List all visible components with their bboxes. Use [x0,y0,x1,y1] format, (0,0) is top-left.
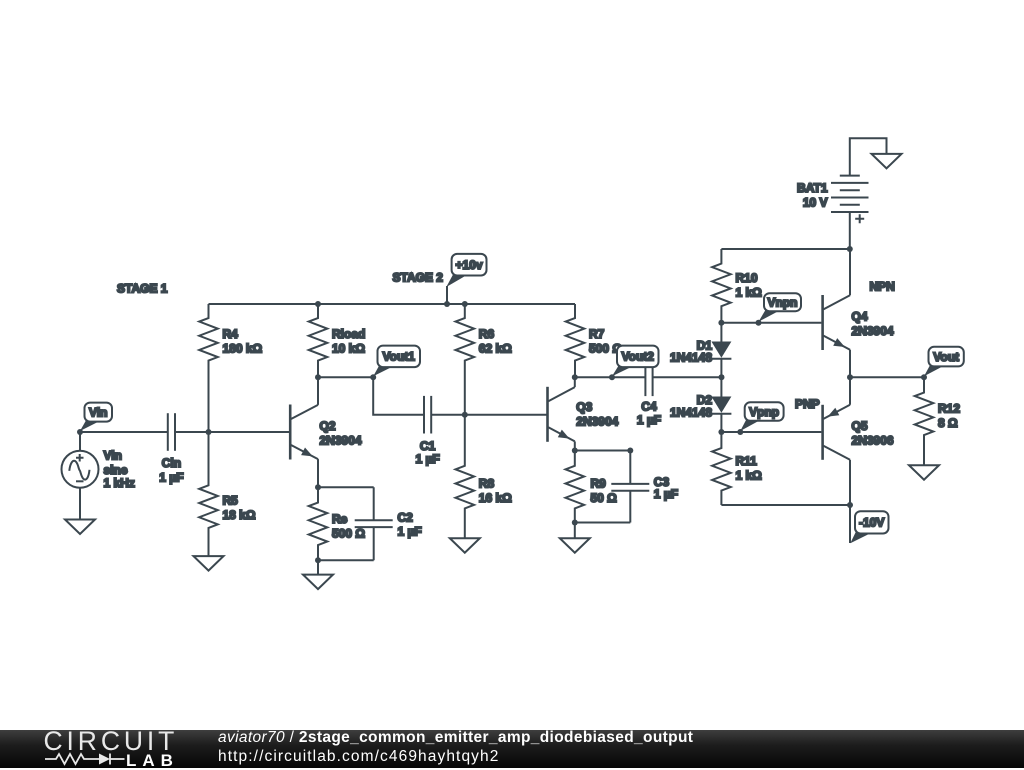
resistor R12 [915,377,934,465]
footer url line [218,748,499,767]
svg-text:Vin: Vin [89,405,107,419]
transistor Q2 2N3904 NPN [290,377,318,487]
svg-text:+10v: +10v [456,258,483,272]
svg-text:R9: R9 [591,477,607,491]
label C3 [654,475,678,501]
node -10V junction [847,502,853,508]
svg-text:R5: R5 [223,494,239,508]
svg-text:C1: C1 [420,439,436,453]
svg-text:180 kΩ: 180 kΩ [223,342,263,356]
capacitor C3 branch wires [575,451,631,523]
svg-text:500 Ω: 500 Ω [332,527,365,541]
capacitor Cin [168,413,175,451]
resistor R5 [199,432,218,556]
footer bar [0,730,1024,768]
svg-text:NPN: NPN [870,280,895,294]
svg-text:Q3: Q3 [576,400,592,414]
svg-text:-10V: -10V [859,516,884,530]
svg-text:BAT1: BAT1 [797,181,828,195]
diode D2 1N4148 [711,377,731,432]
svg-text:STAGE 1: STAGE 1 [117,282,168,296]
wire Vout1 down to C1 [373,377,424,414]
resistor R11 [712,432,731,505]
flag +10v [446,254,486,304]
label R7 [589,327,622,356]
resistor Rload [309,304,328,377]
capacitor C4 [645,359,652,397]
node Rload bottom [315,374,321,380]
svg-text:2N3904: 2N3904 [576,415,618,429]
ground below R5 [194,556,224,571]
svg-text:PNP: PNP [795,397,820,411]
resistor R8 [456,415,475,539]
label R4 [223,327,263,356]
svg-text:50 Ω: 50 Ω [591,491,618,505]
wire R9 bottom to ground [574,523,576,539]
svg-text:Vpnp: Vpnp [749,405,779,419]
label R10 [736,271,763,300]
wire battery to R10 [721,248,849,250]
svg-text:2N3904: 2N3904 [320,434,362,448]
ground below Vin source [65,520,95,535]
CircuitLab logo CIRCUIT word [44,728,179,755]
svg-text:Q4: Q4 [852,310,868,324]
wire Q5 base [721,431,821,433]
wire output rail stage2 [575,376,646,378]
label R8 [479,477,512,506]
svg-text:Vnpn: Vnpn [768,296,798,310]
wire C1 to R6/R8 node [431,414,465,416]
node Q4/Q5 output junction [847,374,853,380]
wire node to Q3 base [465,414,547,416]
flag Vin [80,403,112,431]
svg-text:1 µF: 1 µF [159,470,183,484]
node Vout2 [609,374,615,380]
svg-text:1 µF: 1 µF [654,487,678,501]
label R6 [479,327,512,356]
label Re [332,512,365,541]
label Rload [332,327,365,356]
node R7/Q3 collector [572,374,578,380]
node Q3 emitter junction [572,448,578,454]
svg-text:2N3904: 2N3904 [852,324,894,338]
svg-text:18 kΩ: 18 kΩ [223,508,256,522]
node D2/R11 junction [718,429,724,435]
svg-text:R10: R10 [736,271,758,285]
svg-text:8 Ω: 8 Ω [938,416,958,430]
label NPN [870,280,895,294]
node Vnpn [756,320,762,326]
label C2 [398,510,422,538]
svg-text:2N3906: 2N3906 [852,434,894,448]
label Q5 [852,419,894,448]
svg-text:Q2: Q2 [320,419,336,433]
label R9 [591,477,618,506]
label C4 [637,400,661,427]
voltage source V_in sine [62,432,99,520]
footer title line [218,729,693,748]
svg-text:STAGE 2: STAGE 2 [393,271,444,285]
node diode midpoint [719,374,725,380]
CircuitLab logo wire-diode glyph [45,752,135,766]
svg-text:Rload: Rload [332,327,365,341]
label Q4 [852,310,894,339]
svg-text:16 kΩ: 16 kΩ [479,491,512,505]
node Re bottom junction [315,557,321,563]
capacitor C2 [355,520,393,527]
svg-text:1 µF: 1 µF [415,452,439,466]
wire stub to -10V flag [849,505,851,543]
node C3 top corner [627,448,633,454]
svg-text:10 V: 10 V [803,196,828,210]
svg-text:Cin: Cin [162,456,181,470]
wire Re bottom to ground [317,560,319,574]
svg-text:R7: R7 [589,327,605,341]
resistor R10 [712,249,731,323]
wire Vin to Cin [80,431,168,433]
ground below R8 [450,538,480,553]
node battery positive junction [847,246,853,252]
node R6 top [462,301,468,307]
CircuitLab logo LAB word [126,752,179,769]
capacitor C2 branch wires [318,487,374,560]
svg-text:1N4148: 1N4148 [670,351,712,365]
resistor Re [309,487,328,560]
svg-text:R8: R8 [479,477,495,491]
wire node to Q2 base [209,431,290,433]
wire Q2 emitter to C2 branch [318,486,374,488]
ground below R9 [560,538,590,553]
svg-text:C4: C4 [641,400,657,414]
svg-text:62 kΩ: 62 kΩ [479,342,512,356]
wire Q4 base [721,322,821,324]
svg-text:Vout: Vout [933,350,959,364]
wire top supply rail [209,303,576,305]
svg-text:Vout1: Vout1 [383,350,416,364]
svg-text:1 kHz: 1 kHz [104,476,135,490]
node +10v junction [444,301,450,307]
label Cin [159,456,183,484]
ground at battery top [872,154,902,169]
label Q2 [320,419,362,448]
resistor R7 [566,304,585,377]
svg-text:1N4148: 1N4148 [670,406,712,420]
label STAGE 2 [393,271,444,285]
svg-text:Vout2: Vout2 [622,350,655,364]
label D1 [670,339,712,365]
wire Q3 emitter to C3 branch [575,450,631,452]
node Vout1 [370,374,376,380]
svg-text:C2: C2 [398,510,414,524]
label STAGE 1 [117,282,168,296]
ground below Re [303,575,333,590]
svg-text:1 kΩ: 1 kΩ [736,469,763,483]
svg-text:R12: R12 [938,402,960,416]
node R9 bottom junction [572,520,578,526]
label C1 [415,439,439,466]
flag Vout [924,347,964,377]
wire C4 to diode node [653,376,722,378]
svg-text:Q5: Q5 [852,419,868,433]
label Vin source [104,448,135,490]
node Cin/R5/base junction [206,429,212,435]
label BAT1 [797,181,828,210]
transistor Q5 2N3906 PNP [823,377,850,505]
label R5 [223,494,256,523]
node Vpnp [737,429,743,435]
transistor Q4 2N3904 NPN [823,249,850,377]
capacitor C3 [611,484,649,491]
node Rload top [315,301,321,307]
flag Vout1 [373,346,420,377]
wire output to Vout [850,376,924,378]
label D2 [670,393,712,420]
ground below R12 [909,465,939,480]
node Vout [921,374,927,380]
wire Rload bottom to Vout1 node [318,376,373,378]
svg-text:1 µF: 1 µF [637,413,661,427]
node Q2 emitter junction [315,484,321,490]
label Q3 [576,400,618,429]
label R12 [938,402,960,431]
resistor R6 [456,304,475,415]
wire R11 bottom to -10V node [721,504,850,506]
svg-text:Re: Re [332,512,348,526]
battery BAT1 10V [831,138,887,249]
flag Vout2 [612,346,659,377]
svg-text:R4: R4 [223,327,239,341]
label PNP [795,397,820,411]
svg-text:Vin: Vin [104,448,122,462]
node R10/D1 junction [718,320,724,326]
flag Vpnp [740,402,783,431]
svg-text:10 kΩ: 10 kΩ [332,342,365,356]
flag Vnpn [759,293,802,322]
node C1/R6/R8 junction [462,412,468,418]
svg-text:R6: R6 [479,327,495,341]
transistor Q3 2N3904 NPN [548,377,575,450]
svg-text:1 µF: 1 µF [398,525,422,539]
svg-text:R11: R11 [736,454,758,468]
capacitor C1 [424,396,431,434]
flag -10V [850,511,888,543]
svg-text:1 kΩ: 1 kΩ [736,286,763,300]
resistor R4 [199,304,218,432]
wire Cin to node [175,431,209,433]
diode D1 1N4148 [711,323,731,378]
svg-text:sine: sine [104,463,128,477]
resistor R9 [566,451,585,523]
node Vin [77,429,83,435]
label R11 [736,454,763,483]
